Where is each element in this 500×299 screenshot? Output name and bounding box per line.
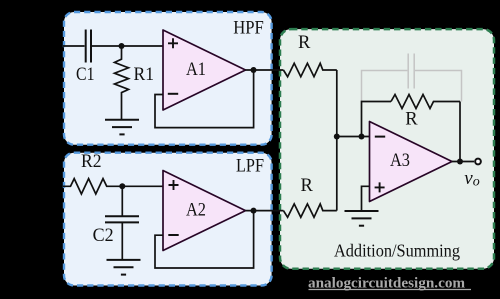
wire: C2 to ground (121, 222, 123, 260)
pin - of A3 (375, 136, 385, 138)
svg-text:Addition/Summing: Addition/Summing (334, 240, 460, 260)
node junction at C1/R1 (119, 43, 125, 49)
svg-text:LPF: LPF (236, 157, 264, 177)
wire: A1 output (246, 69, 284, 71)
wire: feedback tap up to resistor R (362, 102, 392, 137)
wire: feedback R down to output (459, 102, 461, 162)
node summing junction (334, 134, 340, 140)
node A2 output (251, 208, 257, 214)
capacitor C1 (86, 30, 91, 63)
wire: A3 + input to ground (362, 186, 370, 211)
svg-text:R: R (301, 176, 314, 196)
resistor R (top input) (283, 63, 336, 76)
node A1 output (251, 67, 257, 73)
svg-text:A3: A3 (390, 151, 410, 171)
svg-text:R1: R1 (134, 65, 155, 85)
terminal vo (open circle) (475, 159, 481, 165)
resistor R (bottom input) (283, 204, 336, 217)
svg-text:A2: A2 (186, 201, 206, 221)
pin - of A2 (168, 234, 178, 236)
svg-text:A1: A1 (186, 60, 206, 80)
watermark analogcircuitdesign.com (308, 275, 471, 292)
op-amp A1 (163, 30, 246, 110)
wire: HPF input to C1 (63, 45, 85, 47)
ground (LPF) (107, 260, 141, 275)
HPF panel box (64, 12, 272, 145)
svg-text:R: R (405, 109, 418, 129)
svg-text:C1: C1 (76, 65, 95, 85)
svg-text:R: R (298, 33, 311, 53)
wire: node down to C2 (121, 186, 123, 216)
wire: A2 output (246, 210, 284, 212)
op-amp A3 (370, 122, 453, 202)
svg-text:R2: R2 (81, 152, 102, 172)
ground (A3) (345, 211, 379, 226)
capacitor C2 (105, 216, 139, 222)
pin + of A3 (375, 182, 385, 192)
wire: A3 output (452, 161, 474, 163)
wire: bottom R up to summing node (336, 137, 338, 211)
resistor R1 (115, 46, 129, 120)
LPF panel box (64, 153, 272, 286)
wire: C1 to A1 + input (91, 45, 163, 47)
wire: R2 to A2 + input (122, 185, 163, 187)
pin + of A2 (169, 180, 179, 190)
node junction at R2/C2 (119, 183, 125, 189)
wire: A1 feedback loop (155, 70, 254, 128)
ghost capacitor branch (optional C, gray) (362, 54, 462, 102)
pin - of A1 (168, 93, 178, 95)
wire: A2 feedback loop (155, 211, 254, 268)
wire: summing node to A3 - input (337, 136, 370, 138)
Addition/Summing panel box (280, 29, 494, 269)
resistor R2 (63, 179, 122, 194)
op-amp A2 (163, 171, 246, 251)
node A3 output (457, 159, 463, 165)
ground (HPF) (105, 120, 139, 135)
resistor R (feedback) (391, 95, 460, 109)
node at feedback tap (359, 134, 365, 140)
wire: top R down to summing node (336, 70, 338, 137)
svg-text:C2: C2 (93, 226, 114, 246)
svg-text:HPF: HPF (233, 19, 264, 39)
pin + of A1 (168, 38, 178, 48)
